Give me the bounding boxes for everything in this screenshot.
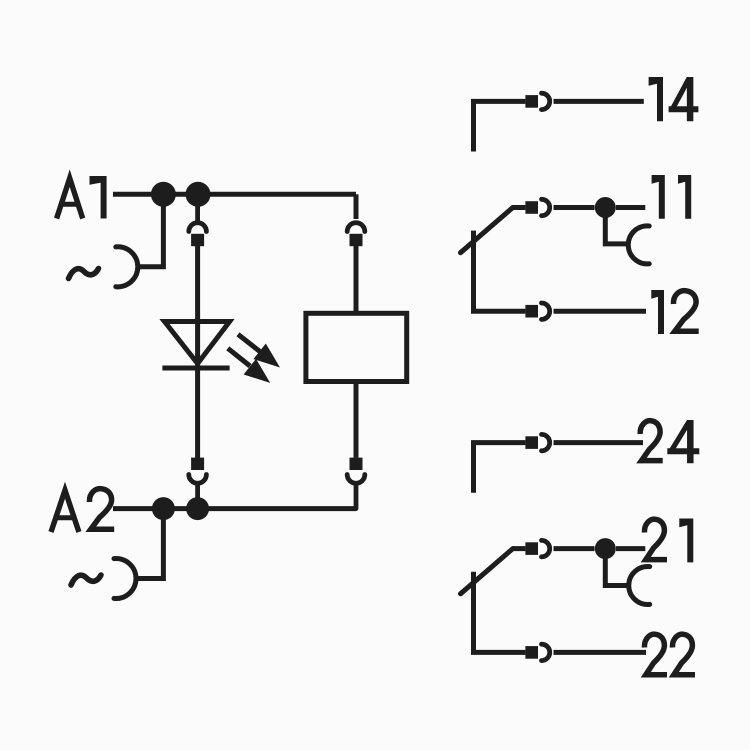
plug socket on 22 line [542, 644, 550, 660]
switch arm contact 11-12 [461, 208, 513, 253]
plug connector pin, LED branch bottom [191, 458, 204, 470]
switch arm contact 21-22 [461, 549, 513, 594]
plug pin on 11 line [525, 201, 538, 214]
wire coil branch top [354, 194, 359, 219]
terminal label 14 [649, 77, 699, 121]
plug pin on 12 line [525, 305, 538, 318]
junction dot A1-b [186, 182, 211, 207]
socket (female connector) at A2 supply [114, 558, 136, 598]
plug connector socket, LED branch bottom [189, 475, 207, 498]
wire A1 drop to supply socket [138, 194, 164, 266]
LED D1 triangle [165, 322, 230, 364]
terminal label 22 [644, 634, 695, 675]
socket (female connector) at 21 [629, 567, 650, 605]
terminal label 21 [644, 519, 693, 563]
plug pin on 21 line [525, 542, 538, 555]
wire stub pole 21 [513, 546, 526, 551]
wire 21 drop to socket [605, 549, 630, 586]
wire LED branch vertical [195, 246, 200, 458]
wire to terminal 21 [616, 546, 645, 551]
junction dot A2-a [152, 497, 175, 520]
wire stub pole 11 [513, 205, 526, 210]
wire NO contact 24 corner [474, 443, 526, 493]
LED light arrow 2 [228, 348, 270, 383]
plug socket on 11 line [542, 199, 550, 215]
plug socket on 14 line [542, 93, 550, 109]
wire to terminal 11 [616, 205, 645, 210]
junction dot 21 [595, 538, 616, 559]
wire NO contact 14 corner [474, 101, 526, 151]
wire to terminal 22 [554, 650, 647, 655]
wire NC contact 12 corner [474, 231, 526, 312]
socket (female connector) at A1 supply [116, 247, 138, 287]
wire 11 drop to socket [605, 208, 630, 244]
socket (female connector) at 11 [628, 226, 649, 264]
plug connector pin, coil branch top [350, 234, 363, 246]
wire to terminal 12 [554, 309, 647, 314]
junction dot 11 [595, 197, 616, 218]
plug socket on 12 line [542, 303, 550, 319]
wire to terminal 24 [554, 440, 644, 445]
AC symbol ~ at A2 [71, 575, 101, 585]
wire coil branch lower [354, 382, 359, 458]
plug socket on 24 line [542, 434, 550, 450]
plug connector socket, coil branch top [347, 223, 365, 232]
plug pin on 14 line [525, 95, 538, 108]
wire coil branch to coil [354, 246, 359, 313]
terminal label 12 [651, 290, 698, 334]
wire A1 horizontal rail [113, 192, 356, 197]
wire NC contact 22 corner [474, 572, 526, 653]
plug socket on 21 line [542, 540, 550, 556]
plug connector socket, coil branch bottom [347, 475, 365, 509]
plug connector pin, LED branch top [191, 234, 204, 246]
wire to junction 21 [554, 546, 595, 551]
terminal label A2 [51, 489, 114, 532]
terminal label 24 [640, 420, 699, 463]
wire A2 drop to supply socket [136, 509, 163, 579]
relay coil K1 [306, 313, 407, 381]
LED light arrow 1 [238, 334, 280, 367]
terminal label 11 [652, 175, 692, 219]
wire to terminal 14 [554, 99, 644, 104]
AC symbol ~ at A1 [69, 269, 99, 279]
wire to junction 11 [554, 205, 595, 210]
junction dot A1-a [151, 182, 176, 207]
wire A2 horizontal rail [113, 506, 356, 511]
plug pin on 22 line [525, 646, 538, 659]
LED D1 cathode bar [162, 366, 229, 371]
plug connector pin, coil branch bottom [350, 458, 363, 470]
terminal label A1 [57, 176, 107, 219]
plug connector socket, LED branch top [189, 194, 207, 231]
junction dot A2-b [186, 497, 209, 520]
plug pin on 24 line [525, 436, 538, 449]
